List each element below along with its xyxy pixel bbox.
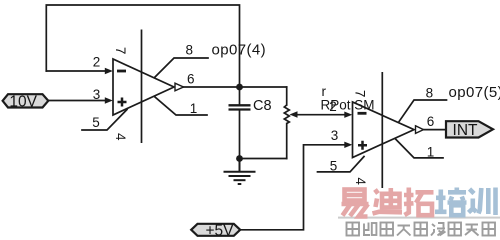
op-amp U2 power line pins 7/4 — [381, 72, 383, 188]
watermark big char 培 (blue) — [435, 188, 467, 216]
pin 5 stub U2 — [318, 157, 365, 172]
svg-text:1: 1 — [190, 101, 198, 116]
svg-text:3: 3 — [331, 128, 339, 143]
wire 10V to pin3 U1 — [47, 100, 106, 102]
wire +5V to pin3 U2 — [240, 145, 346, 230]
svg-text:1: 1 — [427, 145, 435, 160]
wire pot top lead — [286, 87, 288, 105]
junction node ground — [236, 155, 243, 162]
wire C8 top lead — [239, 87, 241, 104]
junction node U1 output — [236, 84, 243, 91]
wire U2 output to INT — [423, 129, 447, 131]
pin 8 stub U1 — [155, 58, 209, 78]
svg-text:4: 4 — [113, 133, 128, 141]
svg-text:5: 5 — [92, 115, 100, 130]
svg-text:2: 2 — [329, 99, 337, 114]
watermark small text 射频和天线设计专家 (gray) — [347, 223, 496, 236]
svg-text:+5V: +5V — [205, 222, 234, 239]
op-amp U1 output arrowhead — [175, 83, 184, 91]
watermark underline rule (gray) — [338, 217, 500, 219]
svg-text:6: 6 — [187, 72, 195, 87]
op-amp U1 triangle — [113, 59, 174, 115]
op-amp U2 triangle — [353, 102, 415, 158]
watermark big char 迪 (pink) — [373, 188, 403, 214]
op-amp U2 output arrowhead — [416, 126, 424, 134]
svg-text:op07(4): op07(4) — [212, 42, 267, 59]
op-amp U2 minus input sign — [358, 112, 367, 115]
port 10V flag — [3, 94, 49, 107]
port +5V flag — [191, 224, 240, 236]
svg-text:2: 2 — [93, 55, 101, 70]
wire pot bottom lead — [286, 124, 288, 159]
wire feedback loop U1 output to pin2 — [46, 5, 239, 87]
input arrow pin3 U1 — [105, 97, 113, 103]
op-amp U1 plus input sign — [118, 98, 127, 107]
svg-text:C8: C8 — [253, 98, 272, 114]
pin 8 stub U2 — [399, 100, 447, 122]
pin 1 stub U1 — [155, 97, 207, 115]
svg-text:4: 4 — [353, 177, 368, 185]
svg-text:7: 7 — [113, 47, 128, 55]
pin 1 stub U2 — [395, 139, 443, 158]
port INT flag — [446, 121, 493, 137]
watermark big char 拓 (pink) — [404, 188, 434, 216]
op-amp U1 minus input sign — [117, 70, 126, 73]
svg-text:10V: 10V — [9, 94, 37, 111]
pot wiper arrow — [290, 111, 298, 117]
capacitor C8 plates — [229, 105, 251, 109]
watermark big char 训 (blue) — [469, 188, 496, 216]
input arrow pin3 U2 — [344, 142, 352, 148]
watermark big char 易 (pink) — [342, 190, 369, 217]
input arrow pin2 U1 — [105, 68, 113, 74]
svg-text:INT: INT — [453, 122, 479, 139]
svg-text:op07(5): op07(5) — [449, 84, 500, 101]
wire pin2 U1 — [46, 70, 106, 72]
wire U1 output to pot top — [183, 86, 287, 88]
svg-text:3: 3 — [93, 87, 101, 102]
input arrow pin2 U2 — [344, 112, 352, 118]
svg-text:7: 7 — [352, 90, 367, 98]
pin 5 stub U1 — [82, 110, 127, 131]
potentiometer RPot SM zigzag — [284, 105, 289, 124]
op-amp U1 power line pins 7/4 — [141, 30, 143, 144]
svg-text:6: 6 — [427, 114, 435, 129]
ground symbol — [224, 159, 256, 185]
wire bottom junction to pot bottom — [240, 158, 287, 160]
wire C8 bottom lead — [239, 110, 241, 159]
svg-text:8: 8 — [426, 86, 434, 101]
svg-text:5: 5 — [330, 159, 338, 174]
svg-text:8: 8 — [185, 43, 193, 58]
op-amp U2 plus input sign — [358, 141, 367, 150]
wire pot wiper to pin2 U2 — [295, 114, 346, 116]
